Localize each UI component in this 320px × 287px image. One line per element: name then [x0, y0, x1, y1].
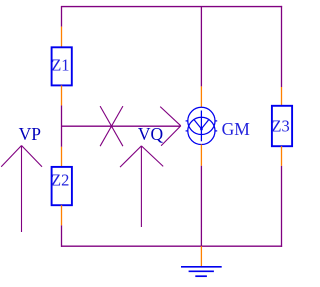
Z2 pin (bottom)	[61, 205, 63, 225]
wire: top rail	[61, 6, 282, 8]
impedance Z1	[52, 27, 72, 106]
GM pin (top)	[200, 86, 202, 107]
dependent current source GM	[186, 86, 218, 165]
svg-text:Z2: Z2	[51, 170, 69, 189]
svg-text:Z1: Z1	[51, 56, 69, 75]
Z2 body	[52, 167, 72, 205]
annotation: VQ up arrow	[120, 146, 163, 227]
wire: left branch between Z1 and Z2	[61, 105, 63, 146]
Z1 pin (bottom)	[61, 85, 63, 105]
wire: middle branch top (to GM)	[200, 7, 202, 87]
wire: middle branch bottom (GM to bottom rail)	[200, 166, 202, 247]
Z2 pin (top)	[61, 147, 63, 167]
wire: bottom rail	[61, 245, 282, 247]
svg-text:GM: GM	[222, 119, 251, 139]
svg-text:Z3: Z3	[271, 116, 289, 135]
svg-text:VP: VP	[19, 124, 42, 144]
svg-text:VQ: VQ	[138, 124, 164, 144]
wire: right branch bottom (Z3 to bottom rail)	[281, 166, 283, 247]
wire: right branch top (to Z3)	[281, 6, 283, 87]
wire: left branch top stub	[61, 6, 63, 27]
annotation: VP up arrow	[1, 146, 42, 233]
Z1 body	[52, 47, 72, 85]
wire: left branch bottom	[61, 225, 63, 247]
annotation: arrowhead pointing right at GM	[160, 107, 181, 146]
annotation: X mark on arrow line	[100, 106, 123, 146]
Z1 pin (top)	[61, 27, 63, 48]
Z3 pin (top)	[281, 87, 283, 106]
GM pin (bottom)	[200, 144, 202, 165]
ground	[181, 246, 222, 276]
impedance Z3	[272, 87, 292, 166]
annotation: controlling branch arrow line	[62, 125, 181, 127]
Z3 body	[272, 106, 292, 146]
impedance Z2	[52, 147, 72, 226]
GM body: twin circles with downward current arrow	[188, 107, 215, 134]
Z3 pin (bottom)	[281, 146, 283, 166]
